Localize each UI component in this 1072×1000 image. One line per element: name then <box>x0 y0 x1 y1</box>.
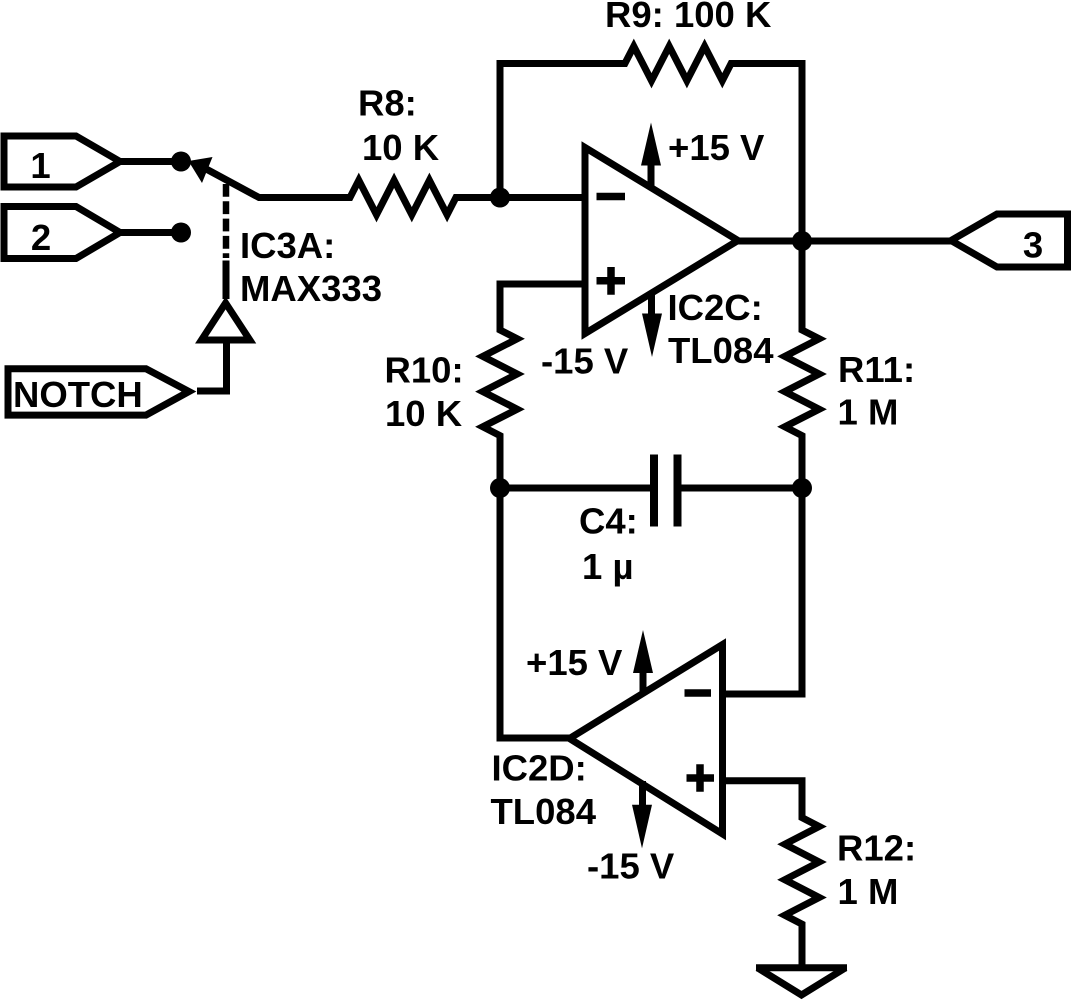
svg-text:1 M: 1 M <box>838 392 899 433</box>
svg-text:R8:: R8: <box>358 83 417 124</box>
switch IC3A solid control line <box>223 261 230 300</box>
svg-text:-15 V: -15 V <box>541 341 629 382</box>
wire IC2D noninverting + resistor R12 + wire to ground <box>723 781 820 968</box>
arrowhead -15V IC2D <box>632 805 652 849</box>
svg-text:TL084: TL084 <box>491 791 597 832</box>
wire feedback + resistor R9 <box>500 46 802 241</box>
svg-text:10 K: 10 K <box>385 393 463 434</box>
power arrow -15V IC2D tail <box>639 781 646 810</box>
svg-text:10 K: 10 K <box>362 127 440 168</box>
switch IC3A dashed control line <box>223 184 230 258</box>
power arrow -15V IC2C tail <box>648 292 655 320</box>
svg-text:+15 V: +15 V <box>668 127 765 168</box>
wire op-amp IC2C output to flag 3 <box>735 238 955 245</box>
power arrow +15V IC2C tail <box>648 158 655 186</box>
junction dot switch pole <box>171 152 191 172</box>
op-amp U2 IC2D triangle <box>570 645 723 835</box>
power arrow +15V IC2D tail <box>640 663 647 693</box>
junction C4 left <box>490 478 510 498</box>
junction output node <box>792 231 812 251</box>
svg-text:1 µ: 1 µ <box>582 546 633 587</box>
IC2C plus sign <box>597 267 626 295</box>
wire flag2 to contact dot <box>115 229 181 236</box>
capacitor C4 left plate <box>650 455 658 527</box>
connector flag 3 <box>951 214 1068 267</box>
connector flag 1 <box>4 136 120 187</box>
svg-text:R10:: R10: <box>385 350 464 391</box>
svg-text:1: 1 <box>30 145 50 186</box>
junction C4 right <box>792 478 812 498</box>
svg-text:R11:: R11: <box>838 349 915 390</box>
svg-text:1 M: 1 M <box>838 871 899 912</box>
capacitor C4 right plate <box>674 455 682 527</box>
wire flag1 to switch pole <box>115 158 181 165</box>
contact dot input 2 <box>171 223 191 243</box>
wire output node + resistor R11 + wire to IC2D inverting input <box>723 241 820 694</box>
wire noninverting stub + resistor R10 + wire to IC2D output <box>483 284 585 738</box>
svg-text:R12:: R12: <box>837 828 916 869</box>
svg-text:IC2D:: IC2D: <box>492 748 587 789</box>
wire capacitor C4 left lead <box>500 485 650 492</box>
wire capacitor C4 right lead <box>682 485 803 492</box>
svg-text:C4:: C4: <box>579 501 638 542</box>
svg-text:+15 V: +15 V <box>526 642 623 683</box>
arrowhead -15V IC2C <box>642 314 662 358</box>
connector flag 2 <box>4 207 120 259</box>
svg-text:MAX333: MAX333 <box>240 268 382 309</box>
svg-text:-15 V: -15 V <box>587 846 675 887</box>
svg-text:IC3A:: IC3A: <box>240 225 335 266</box>
wire NOTCH to buffer <box>197 342 227 392</box>
IC2D plus sign <box>687 764 715 791</box>
svg-text:3: 3 <box>1023 225 1043 266</box>
svg-text:2: 2 <box>31 217 51 258</box>
svg-text:IC2C:: IC2C: <box>668 287 763 328</box>
buffer triangle of IC3A <box>202 303 250 340</box>
op-amp U1 IC2C triangle <box>585 148 738 334</box>
svg-text:NOTCH: NOTCH <box>13 374 143 415</box>
IC2C minus sign <box>597 193 626 201</box>
IC2D minus sign <box>685 689 712 697</box>
arrowhead +15V IC2C <box>641 123 661 166</box>
arrowhead +15V IC2D <box>633 630 653 673</box>
ground symbol <box>756 964 847 971</box>
svg-text:R9: 100 K: R9: 100 K <box>605 0 772 35</box>
svg-text:TL084: TL084 <box>668 330 774 371</box>
connector flag NOTCH <box>8 369 189 415</box>
switch arm arrowhead <box>189 157 213 183</box>
junction node A (R8/R9/inverting input) <box>490 188 510 208</box>
wire switch arm + resistor R8 + wire to inverting input <box>196 164 585 215</box>
